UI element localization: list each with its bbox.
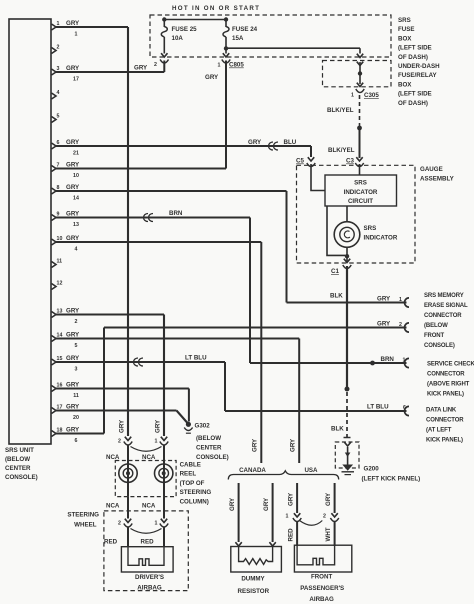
inline connector on pin6 wire: [269, 142, 274, 150]
svg-text:OF DASH): OF DASH): [398, 100, 428, 107]
front passenger airbag label: [300, 574, 344, 604]
svg-text:14: 14: [57, 332, 63, 338]
SRS indicator bulb: [334, 222, 398, 248]
svg-text:(BELOW: (BELOW: [196, 435, 221, 442]
wire USA branch right GRY/WHT: [323, 483, 339, 546]
svg-text:C805: C805: [229, 62, 244, 69]
svg-text:CONSOLE): CONSOLE): [424, 343, 455, 349]
SRS unit pin 11: [52, 258, 63, 267]
connector C5: [296, 157, 315, 166]
svg-text:BOX: BOX: [398, 81, 412, 88]
steering wheel label: [67, 512, 99, 529]
svg-text:13: 13: [73, 222, 79, 228]
wire SRS unit pin 10 down to airbag branch (left): [55, 242, 261, 463]
svg-text:17: 17: [57, 404, 63, 410]
svg-text:CABLE: CABLE: [180, 462, 201, 469]
svg-text:ASSEMBLY: ASSEMBLY: [420, 176, 455, 183]
SRS unit pin 9: [52, 211, 81, 228]
svg-text:12: 12: [57, 280, 63, 286]
driver airbag squib: [128, 547, 164, 566]
SRS unit box: [9, 19, 51, 444]
svg-text:REEL: REEL: [180, 471, 197, 478]
service check connector label: [427, 362, 474, 398]
G302 ground: [184, 422, 192, 434]
svg-text:16: 16: [57, 382, 63, 388]
svg-text:SRS: SRS: [364, 225, 377, 232]
svg-text:CENTER: CENTER: [196, 445, 222, 452]
under-dash box label: [398, 63, 440, 107]
under-dash fuse/relay box (dashed): [323, 61, 392, 87]
svg-text:WHEEL: WHEEL: [74, 522, 97, 529]
wire C3 into SRS indicator circuit: [359, 164, 361, 175]
SRS unit pin 18: [52, 427, 81, 444]
svg-text:18: 18: [57, 427, 63, 433]
svg-text:SRS: SRS: [398, 17, 411, 24]
svg-text:RESISTOR: RESISTOR: [238, 588, 270, 595]
svg-text:SRS: SRS: [354, 180, 367, 187]
svg-text:7: 7: [57, 162, 60, 168]
svg-text:(TOP OF: (TOP OF: [180, 480, 205, 487]
svg-text:GRY: GRY: [252, 438, 259, 452]
svg-text:1: 1: [75, 32, 78, 38]
svg-text:GRY: GRY: [287, 492, 294, 506]
fuse 25 10A: [161, 20, 197, 54]
svg-text:BLK: BLK: [330, 293, 343, 300]
svg-text:ERASE SIGNAL: ERASE SIGNAL: [424, 303, 468, 309]
svg-text:2: 2: [118, 439, 121, 445]
svg-text:CIRCUIT: CIRCUIT: [348, 198, 373, 205]
wire BLK dashed to G200: [331, 392, 351, 438]
svg-text:FUSE/RELAY: FUSE/RELAY: [398, 72, 437, 79]
svg-text:BRN: BRN: [381, 356, 395, 363]
wire C805 GRY to SRS unit pin 7: [55, 61, 226, 169]
svg-text:1: 1: [57, 21, 60, 27]
svg-text:13: 13: [57, 308, 63, 314]
svg-text:C3: C3: [346, 158, 354, 165]
driver airbag box: [121, 547, 173, 572]
SRS unit pin 14: [52, 332, 81, 349]
svg-text:KICK PANEL): KICK PANEL): [426, 438, 463, 444]
inline connector on pin9 wire: [144, 214, 149, 222]
connector C805: [218, 53, 245, 68]
svg-text:GRY: GRY: [248, 139, 262, 146]
svg-text:BLK: BLK: [331, 426, 344, 433]
svg-text:CONSOLE): CONSOLE): [5, 474, 38, 481]
svg-text:USA: USA: [304, 467, 318, 474]
svg-text:1: 1: [351, 93, 354, 99]
cable reel label: [180, 462, 212, 506]
SRS unit pin 7: [52, 162, 81, 179]
svg-text:FUSE: FUSE: [398, 26, 415, 33]
connector bracket cable reel upper: [131, 447, 162, 452]
svg-text:DUMMY: DUMMY: [241, 576, 265, 583]
svg-text:BOX: BOX: [398, 35, 412, 42]
svg-text:RED: RED: [141, 539, 155, 546]
wire SRS unit pin 17 to G302: [55, 411, 188, 424]
svg-text:8: 8: [57, 185, 60, 191]
bus junction node: [162, 17, 166, 21]
svg-text:11: 11: [73, 393, 79, 399]
wire CANADA branch left GRY: [229, 483, 242, 546]
svg-text:21: 21: [73, 151, 79, 157]
wire through under-dash box: [357, 62, 363, 87]
svg-text:FUSE 25: FUSE 25: [172, 26, 198, 33]
svg-text:10: 10: [57, 236, 63, 242]
svg-text:OF DASH): OF DASH): [398, 54, 428, 61]
driver airbag connector 2: [118, 497, 132, 547]
svg-text:5: 5: [57, 113, 60, 119]
SRS unit pin 1: [52, 20, 81, 37]
wire fuse25 to SRS unit pin 3 (GRY 17): [55, 53, 169, 72]
wire USA branch left GRY/RED: [286, 483, 302, 546]
svg-text:GRY: GRY: [154, 419, 161, 433]
svg-text:C305: C305: [364, 92, 379, 99]
bus wire HOT IN ON OR START: [164, 19, 226, 21]
svg-text:17: 17: [73, 77, 79, 83]
svg-text:HOT IN ON OR START: HOT IN ON OR START: [172, 5, 260, 12]
svg-text:COLUMN): COLUMN): [180, 498, 209, 505]
svg-text:STEERING: STEERING: [67, 512, 99, 519]
svg-text:2: 2: [154, 62, 157, 68]
SRS unit pin 6: [52, 139, 81, 156]
SRS unit pin 2: [52, 44, 60, 53]
SRS unit pin 3: [52, 65, 81, 82]
svg-text:(AT LEFT: (AT LEFT: [426, 428, 452, 434]
svg-text:(BELOW: (BELOW: [424, 323, 448, 329]
svg-text:NCA: NCA: [106, 503, 120, 510]
svg-text:GRY: GRY: [263, 497, 270, 511]
svg-text:6: 6: [57, 140, 60, 146]
junction node below bulb: [345, 254, 349, 258]
svg-text:GRY: GRY: [377, 321, 391, 328]
svg-text:WHT: WHT: [325, 527, 332, 541]
front passenger airbag box: [294, 545, 351, 572]
wire SRS unit pin 18 to memory erase connector pin 2: [55, 321, 407, 434]
svg-text:BLK/YEL: BLK/YEL: [327, 107, 354, 114]
svg-text:G302: G302: [195, 423, 211, 430]
svg-text:PASSENGER'S: PASSENGER'S: [300, 585, 344, 592]
SRS memory erase signal connector label: [424, 293, 468, 349]
svg-text:CONNECTOR: CONNECTOR: [427, 372, 465, 378]
cable reel upper connector 1: [155, 437, 169, 461]
svg-text:10A: 10A: [172, 35, 184, 42]
wire SRS unit pin 9 BRN to service check connector: [55, 210, 407, 363]
connector bracket driver airbag: [131, 529, 162, 534]
svg-text:STEERING: STEERING: [180, 489, 212, 496]
SRS unit pin 17: [52, 404, 81, 421]
SRS unit pin 4: [52, 90, 60, 99]
svg-text:C1: C1: [331, 268, 339, 275]
SRS indicator circuit box U1: [325, 175, 397, 206]
connector C1: [331, 259, 351, 275]
svg-text:CONSOLE): CONSOLE): [196, 454, 229, 461]
svg-text:DRIVER'S: DRIVER'S: [135, 574, 164, 581]
svg-text:15: 15: [57, 356, 63, 362]
wire C5 into SRS indicator circuit: [311, 164, 325, 191]
wire SRS unit pin 1 down to cable reel: [55, 27, 128, 436]
svg-text:6: 6: [75, 438, 78, 444]
svg-text:2: 2: [118, 521, 121, 527]
svg-text:9: 9: [57, 211, 60, 217]
junction node in under-dash box: [358, 71, 362, 75]
svg-text:GRY: GRY: [377, 296, 391, 303]
wire CANADA branch right GRY: [263, 483, 276, 546]
CANADA USA brace: [228, 471, 338, 480]
dummy resistor box: [231, 547, 282, 573]
svg-text:2: 2: [323, 514, 326, 520]
cable reel coil left: [119, 461, 137, 497]
svg-text:BLK/YEL: BLK/YEL: [328, 147, 355, 154]
cable reel upper connector 2: [118, 437, 132, 461]
wire SRS unit pin 14 down to airbag branch (right): [55, 339, 299, 464]
junction node on service check wire: [370, 361, 375, 366]
svg-text:AIRBAG: AIRBAG: [309, 596, 334, 603]
svg-text:C5: C5: [296, 158, 304, 165]
wire BLK/YEL to gauge C3: [327, 95, 360, 158]
SRS unit label: [5, 447, 38, 481]
svg-text:SERVICE CHECK: SERVICE CHECK: [427, 362, 474, 368]
svg-text:BLU: BLU: [284, 139, 297, 146]
wire circuit box to SRS indicator bulb: [346, 206, 348, 222]
wire SRS unit pin 8 to memory erase connector pin 1: [55, 191, 407, 303]
svg-text:GRY: GRY: [229, 497, 236, 511]
svg-text:10: 10: [73, 173, 79, 179]
svg-text:(LEFT SIDE: (LEFT SIDE: [398, 91, 432, 98]
wire bulb to C1: [346, 247, 348, 262]
inline connector on pin15 wire: [134, 358, 139, 366]
svg-text:2: 2: [57, 44, 60, 50]
svg-text:SRS MEMORY: SRS MEMORY: [424, 293, 464, 299]
G200 connector box (dashed): [335, 442, 359, 468]
svg-text:INDICATOR: INDICATOR: [344, 189, 378, 196]
front passenger airbag squib: [297, 545, 335, 565]
steering wheel box (dashed): [104, 511, 188, 591]
SRS fuse box (dashed): [150, 15, 391, 57]
svg-text:1: 1: [155, 521, 158, 527]
svg-text:1: 1: [286, 514, 289, 520]
cable reel coil right: [155, 461, 173, 497]
connector C305: [351, 89, 379, 99]
svg-text:GRY: GRY: [325, 492, 332, 506]
svg-text:CONNECTOR: CONNECTOR: [424, 313, 462, 319]
svg-text:CONNECTOR: CONNECTOR: [426, 418, 464, 424]
svg-text:GAUGE: GAUGE: [420, 166, 443, 173]
svg-text:1: 1: [218, 63, 221, 69]
SRS unit pin 8: [52, 184, 81, 201]
svg-text:(LEFT SIDE: (LEFT SIDE: [398, 45, 432, 52]
connector bracket USA pair: [300, 521, 323, 526]
fuse 24 15A: [223, 20, 258, 54]
data link connector terminal: [404, 406, 409, 415]
driver airbag connector 1: [155, 497, 169, 547]
dummy resistor R: [239, 547, 273, 565]
svg-text:CENTER: CENTER: [5, 465, 31, 472]
SRS unit pin 5: [52, 113, 60, 122]
dummy resistor label: [238, 576, 270, 596]
svg-text:GRY: GRY: [134, 65, 148, 72]
svg-text:G200: G200: [364, 466, 380, 473]
svg-text:AIRBAG: AIRBAG: [137, 584, 162, 591]
svg-text:BRN: BRN: [169, 210, 183, 217]
svg-text:3: 3: [57, 66, 60, 72]
svg-text:SRS UNIT: SRS UNIT: [5, 447, 34, 454]
splice node BLK/YEL: [357, 126, 362, 131]
svg-text:2: 2: [399, 322, 402, 328]
svg-text:RED: RED: [288, 528, 295, 542]
junction node fuse24 branch: [224, 46, 228, 50]
svg-text:(ABOVE RIGHT: (ABOVE RIGHT: [427, 382, 470, 388]
wire fuse 24 branch to under-dash box: [226, 47, 360, 49]
G200 label: [362, 466, 421, 483]
service check connector terminal: [404, 358, 409, 367]
svg-text:FRONT: FRONT: [311, 574, 333, 581]
SRS unit pin 10: [52, 235, 81, 252]
svg-text:1: 1: [155, 439, 158, 445]
svg-text:4: 4: [75, 247, 78, 253]
wire SRS unit pin 15 LT BLU to data link connector: [55, 355, 407, 412]
gauge assembly box (dashed): [297, 165, 416, 263]
wire SRS unit pin 6 GRY/BLU to gauge C5: [55, 139, 311, 157]
wire BLK from gauge C1 down: [330, 266, 347, 390]
wire SRS unit pin 16 to G302: [55, 389, 189, 422]
svg-text:5: 5: [75, 343, 78, 349]
svg-text:15A: 15A: [232, 35, 244, 42]
SRS fuse box label: [398, 17, 432, 61]
svg-text:CANADA: CANADA: [239, 467, 266, 474]
G200 ground: [342, 442, 355, 474]
svg-text:3: 3: [75, 367, 78, 373]
svg-text:14: 14: [73, 196, 79, 202]
junction node BLK to G200: [345, 387, 350, 392]
G302 label: [195, 423, 229, 462]
svg-text:(LEFT KICK PANEL): (LEFT KICK PANEL): [362, 476, 421, 483]
svg-text:FRONT: FRONT: [424, 333, 445, 339]
SRS unit pin 12: [52, 280, 63, 289]
driver airbag label: [135, 574, 164, 591]
svg-text:1: 1: [399, 297, 402, 303]
svg-text:(BELOW: (BELOW: [5, 456, 30, 463]
svg-text:FUSE 24: FUSE 24: [232, 26, 258, 33]
svg-text:LT BLU: LT BLU: [367, 404, 389, 411]
svg-text:INDICATOR: INDICATOR: [364, 235, 398, 242]
wire circuit box second leg to bulb output: [327, 206, 345, 255]
svg-text:GRY: GRY: [290, 438, 297, 452]
SRS unit pin 15: [52, 355, 81, 372]
svg-text:RED: RED: [104, 539, 118, 546]
svg-text:UNDER-DASH: UNDER-DASH: [398, 63, 440, 70]
SRS unit pin 13: [52, 308, 81, 325]
wire SRS unit pin 13 down to cable reel: [55, 315, 164, 437]
svg-text:20: 20: [73, 415, 79, 421]
cable reel box (dashed): [115, 461, 176, 497]
SRS unit pin 16: [52, 382, 81, 399]
connector C3: [346, 157, 364, 166]
SRS memory erase connector terminal 2: [404, 323, 409, 332]
data link connector label: [426, 408, 464, 444]
svg-text:GRY: GRY: [205, 74, 219, 81]
SRS memory erase connector terminal 1: [404, 298, 409, 307]
svg-text:4: 4: [57, 90, 60, 96]
svg-text:NCA: NCA: [142, 503, 156, 510]
svg-text:DATA LINK: DATA LINK: [426, 408, 457, 414]
svg-text:2: 2: [75, 319, 78, 325]
svg-text:GRY: GRY: [118, 419, 125, 433]
gauge assembly label: [420, 166, 455, 183]
svg-text:11: 11: [57, 258, 63, 264]
svg-text:KICK PANEL): KICK PANEL): [427, 392, 464, 398]
svg-text:LT BLU: LT BLU: [185, 355, 207, 362]
